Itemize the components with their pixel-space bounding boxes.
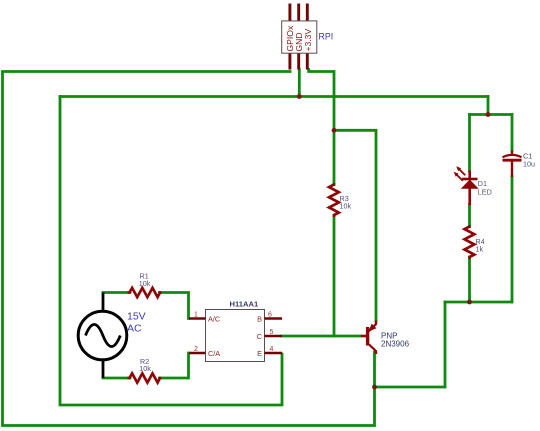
connector value label RPI xyxy=(319,32,334,42)
connector RPI body xyxy=(282,21,317,53)
wire R3 bottom to base net xyxy=(333,216,336,337)
wire GND inner loop to opto pin E xyxy=(60,97,282,406)
wire +3.3V run to R3 top xyxy=(309,70,334,185)
wire GND feed down to LED/C1 top rail xyxy=(487,97,490,115)
opto-coupler U1 body H11AA1 xyxy=(206,310,265,362)
resistor R2 xyxy=(128,373,162,382)
wire GND horizontal rail xyxy=(60,95,488,98)
pin label B xyxy=(257,315,262,324)
opto pin 1 lead xyxy=(189,317,206,320)
wire below R4 xyxy=(468,257,471,302)
pin label C xyxy=(257,332,262,341)
wire collector junction to right vertical xyxy=(375,386,446,389)
svg-text:+3.3V: +3.3V xyxy=(303,29,313,52)
svg-text:5: 5 xyxy=(270,329,274,336)
svg-text:15V: 15V xyxy=(127,311,146,323)
connector RPI pin 2 bottom lead xyxy=(297,53,300,69)
label D1 value LED xyxy=(478,188,492,197)
label Q1 name PNP xyxy=(381,332,397,341)
wire GPIOx net: top rail, left side, bottom rail up to collector xyxy=(3,72,375,426)
svg-text:2: 2 xyxy=(194,346,198,353)
pin label A/C xyxy=(208,315,220,324)
svg-text:10k: 10k xyxy=(340,202,352,211)
transistor Q1 base bar xyxy=(366,327,369,346)
capacitor C1 xyxy=(503,151,522,178)
LED D1 xyxy=(454,166,478,205)
junction at collector rail xyxy=(372,385,377,390)
junction at GND pin drop xyxy=(297,94,302,99)
label R1 value 10k xyxy=(139,279,151,288)
wire base net from opto pin C xyxy=(282,335,361,338)
svg-text:1k: 1k xyxy=(476,245,484,254)
svg-text:LED: LED xyxy=(478,188,492,197)
label R2 name xyxy=(140,357,149,366)
label R2 value 10k xyxy=(139,364,151,373)
opto pin 2 lead xyxy=(189,352,206,355)
opto pin 4 lead xyxy=(265,352,283,355)
AC source G1 top lead xyxy=(102,293,105,312)
label D1 name xyxy=(478,179,487,188)
junction at +3.3V emitter tap xyxy=(332,128,337,133)
connector RPI pin label +3.3V xyxy=(303,29,313,52)
svg-text:RPI: RPI xyxy=(319,32,334,42)
wire C1 branch above capacitor xyxy=(511,115,514,151)
label U1 name H11AA1 xyxy=(230,300,259,309)
wire D1 branch above LED xyxy=(468,115,471,172)
wire +3.3V junction to emitter xyxy=(334,130,376,320)
label C1 value 10u xyxy=(523,160,535,169)
label R3 value 10k xyxy=(340,202,352,211)
transistor Q1 collector xyxy=(369,344,376,354)
svg-text:E: E xyxy=(257,349,262,358)
svg-text:C: C xyxy=(257,332,262,341)
pin label C/A xyxy=(208,349,220,358)
svg-text:10u: 10u xyxy=(523,160,535,169)
AC source G1 circle xyxy=(78,311,127,360)
wire R2 to opto pin 2 xyxy=(160,353,189,378)
label C1 name xyxy=(523,152,532,161)
connector RPI pin 1 top lead xyxy=(288,4,291,22)
connector RPI pin 3 top lead xyxy=(306,4,309,22)
label G1 value AC xyxy=(127,323,142,335)
transistor Q1 base lead xyxy=(361,335,366,338)
svg-text:C/A: C/A xyxy=(208,349,220,358)
pin label E xyxy=(257,349,262,358)
resistor R4 xyxy=(465,225,475,259)
label Q1 value 2N3906 xyxy=(381,340,410,349)
connector RPI pin label GPIOx xyxy=(285,25,295,51)
label G1 value 15V xyxy=(127,311,146,323)
svg-text:6: 6 xyxy=(268,312,272,319)
connector RPI pin label GND xyxy=(294,32,304,51)
wire AC top to R1 xyxy=(103,291,130,294)
svg-text:B: B xyxy=(257,315,262,324)
pin number 2 xyxy=(194,346,198,353)
connector RPI pin 1 bottom lead xyxy=(288,53,291,69)
svg-text:10k: 10k xyxy=(139,364,151,373)
pin number 1 xyxy=(194,312,198,319)
wire AC bottom to R2 xyxy=(103,377,130,380)
resistor R3 xyxy=(329,183,339,217)
wire right mid vertical to collector rail xyxy=(444,302,447,387)
AC source G1 sine wave xyxy=(86,325,121,347)
wire bottom right rail xyxy=(445,301,512,304)
junction at R4 bottom rail xyxy=(467,300,472,305)
svg-text:2N3906: 2N3906 xyxy=(381,340,410,349)
transistor Q1 emitter with PNP arrow xyxy=(368,321,376,332)
AC source G1 bottom lead xyxy=(102,360,105,378)
label R4 name xyxy=(476,237,485,246)
opto pin 6 lead xyxy=(265,317,283,320)
junction at LED/C1 top rail xyxy=(486,112,491,117)
label R1 name xyxy=(140,272,149,281)
pin number 5 xyxy=(270,329,274,336)
wire C1 branch below capacitor xyxy=(511,177,514,303)
svg-text:4: 4 xyxy=(270,346,274,353)
pin number 4 xyxy=(270,346,274,353)
label R3 name xyxy=(340,194,349,203)
wire between LED cathode tail and R4 xyxy=(468,205,471,227)
svg-text:H11AA1: H11AA1 xyxy=(230,300,259,309)
svg-text:AC: AC xyxy=(127,323,142,335)
svg-text:10k: 10k xyxy=(139,279,151,288)
label R4 value 1k xyxy=(476,245,484,254)
svg-text:A/C: A/C xyxy=(208,315,220,324)
wire top rail joining D1 and C1 branches xyxy=(470,113,513,116)
svg-text:1: 1 xyxy=(194,312,198,319)
pin number 6 xyxy=(268,312,272,319)
connector RPI pin 2 top lead xyxy=(297,4,300,22)
opto pin 5 lead xyxy=(265,335,283,338)
wire R1 to opto pin 1 xyxy=(160,293,189,319)
connector RPI pin 3 bottom lead xyxy=(306,53,309,69)
resistor R1 xyxy=(128,288,162,297)
wire GND drop from connector pin 2 xyxy=(298,70,301,97)
